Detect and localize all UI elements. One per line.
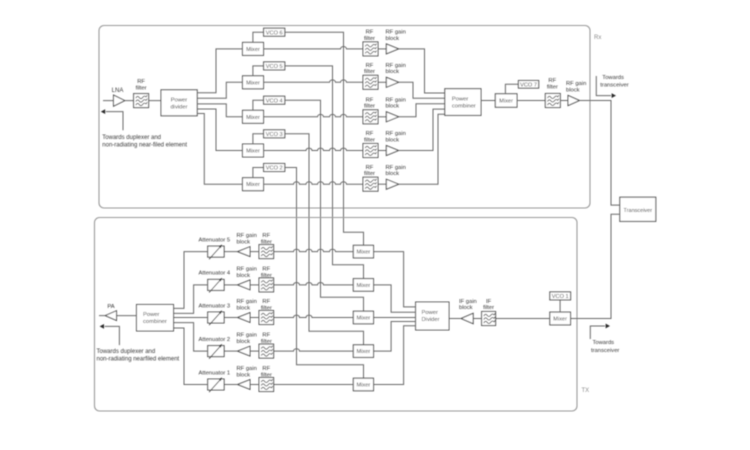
- mixer M8: [353, 245, 373, 258]
- svg-text:filter: filter: [364, 104, 375, 110]
- filter RX input RF filter: [134, 79, 149, 108]
- svg-text:RF: RF: [262, 299, 270, 305]
- svg-text:block: block: [237, 240, 251, 246]
- svg-text:Power: Power: [143, 312, 160, 318]
- svg-text:RF gain: RF gain: [237, 267, 257, 273]
- svg-text:filter: filter: [261, 273, 272, 279]
- filter RF F9: [259, 299, 274, 324]
- svg-text:RF gain: RF gain: [237, 233, 257, 239]
- wire attenuator A5 to gain G7: [224, 251, 237, 253]
- wire attenuator A4 to gain G8: [224, 284, 237, 286]
- svg-text:RF gain: RF gain: [237, 333, 257, 339]
- svg-text:Towards duplexer and: Towards duplexer and: [97, 349, 156, 355]
- mixer M4: [243, 144, 264, 157]
- svg-text:RF: RF: [366, 131, 374, 137]
- wire mixer M1 to VCO 6: [253, 32, 264, 42]
- oscillator VCO 1: [550, 292, 571, 300]
- wire divider out2 to mixer M2: [197, 82, 242, 98]
- svg-text:Mixer: Mixer: [357, 283, 371, 289]
- wire mixer M6 to filter F6: [517, 100, 545, 102]
- wire divider out3 to mixer M3: [197, 104, 242, 117]
- svg-text:Mixer: Mixer: [246, 182, 260, 188]
- svg-text:Power: Power: [171, 97, 188, 103]
- svg-text:filter: filter: [364, 36, 375, 42]
- oscillator VCO 4: [264, 96, 285, 104]
- wire mixer M5 to RF filter F5: [264, 182, 364, 184]
- svg-text:block: block: [386, 36, 400, 42]
- svg-text:block: block: [237, 372, 251, 378]
- wire gain G5 to combiner: [399, 114, 445, 184]
- mixer M7: [550, 312, 571, 325]
- wire attenuator A2 to gain G10: [224, 350, 237, 352]
- oscillator VCO 5: [264, 62, 285, 70]
- wire gain G11 to filter F11: [250, 384, 259, 386]
- svg-text:VCO 7: VCO 7: [520, 82, 537, 88]
- wire mixer M2 to RF filter F2: [264, 80, 364, 82]
- wire attenuator A1 to gain G11: [224, 384, 237, 386]
- wire filter F1 to gain G1: [378, 48, 386, 50]
- svg-text:non-radiating near-filed eleme: non-radiating near-filed element: [102, 142, 187, 148]
- wire filter F3 to gain G3: [378, 116, 386, 118]
- svg-text:Attenuator 2: Attenuator 2: [199, 337, 231, 343]
- arrow to duplexer (RX): [101, 109, 123, 130]
- TX section enclosure: [95, 218, 578, 412]
- wire gain G10 to filter F10: [250, 350, 259, 352]
- svg-text:RF gain: RF gain: [386, 131, 406, 137]
- wire filter F6 to gain G6: [560, 100, 568, 102]
- RX section enclosure: [99, 26, 590, 209]
- svg-text:Power: Power: [422, 310, 439, 316]
- wire VCO 5 bus to TX mixer: [285, 66, 364, 279]
- filter RF F8: [259, 267, 274, 292]
- wire mixer M10 to divider: [374, 317, 416, 319]
- power combiner RX: [445, 89, 481, 116]
- svg-text:Mixer: Mixer: [357, 250, 371, 256]
- svg-text:Towards duplexer and: Towards duplexer and: [102, 135, 161, 141]
- wire gain G1 to combiner: [399, 49, 445, 93]
- svg-text:RF gain: RF gain: [386, 97, 406, 103]
- svg-text:combiner: combiner: [452, 103, 476, 109]
- mixer M9: [353, 279, 373, 292]
- mixer M11: [353, 345, 373, 358]
- amplifier PA: [105, 304, 116, 321]
- filter RF F10: [259, 333, 274, 358]
- svg-text:filter: filter: [136, 85, 147, 91]
- oscillator VCO 7: [518, 81, 538, 89]
- wire LNA to RF filter: [125, 100, 134, 102]
- note towards duplexer (TX): [97, 349, 180, 362]
- svg-text:transceiver: transceiver: [591, 348, 619, 354]
- wire filter F8 to mixer M9: [274, 283, 354, 285]
- svg-text:Mixer: Mixer: [246, 47, 260, 53]
- svg-text:Mixer: Mixer: [357, 349, 371, 355]
- wire filter F10 to mixer M11: [274, 349, 354, 351]
- svg-text:block: block: [237, 273, 251, 279]
- note towards duplexer (RX): [102, 135, 187, 148]
- svg-text:transceiver: transceiver: [600, 83, 628, 89]
- svg-text:VCO 3: VCO 3: [266, 132, 283, 138]
- svg-text:non-radiating nearfiled elemen: non-radiating nearfiled element: [97, 357, 180, 363]
- filter RF F3: [363, 97, 378, 123]
- svg-text:block: block: [386, 104, 400, 110]
- svg-text:Towards: Towards: [593, 340, 615, 346]
- mixer M6: [495, 94, 517, 108]
- svg-text:filter: filter: [364, 137, 375, 143]
- wire mixer M3 to VCO 4: [253, 100, 264, 110]
- filter RF F11: [259, 366, 274, 391]
- wire filter F9 to mixer M10: [274, 315, 354, 317]
- wire transceiver to TX mixer M7: [571, 214, 620, 318]
- svg-text:filter: filter: [547, 85, 558, 91]
- attenuator A5: [199, 237, 231, 259]
- wire mixer M12 to divider: [374, 326, 416, 385]
- wire attenuator A3 to gain G9: [224, 317, 237, 319]
- svg-text:RF: RF: [366, 63, 374, 69]
- svg-text:block: block: [386, 137, 400, 143]
- wire VCO 4 bus to TX mixer: [285, 100, 364, 311]
- wire mixer M5 to VCO 2: [253, 168, 264, 178]
- svg-text:PA: PA: [107, 304, 114, 310]
- attenuator A1: [199, 370, 231, 392]
- wire VCO 3 bus to TX mixer: [285, 134, 364, 345]
- wire combiner to attenuator A1: [174, 328, 208, 385]
- wire mixer M4 to VCO 3: [253, 134, 264, 144]
- svg-text:Power: Power: [452, 96, 469, 102]
- amplifier RF gain block G3: [386, 97, 406, 121]
- svg-text:Attenuator 1: Attenuator 1: [199, 370, 231, 376]
- wire mixer M1 to RF filter F1: [264, 47, 364, 49]
- amplifier RF gain block G1: [386, 30, 406, 54]
- power divider RX: [161, 90, 197, 116]
- svg-text:RF gain: RF gain: [237, 299, 257, 305]
- wire mixer M9 to divider: [374, 285, 416, 312]
- svg-text:Divider: Divider: [422, 317, 440, 323]
- amplifier RF gain block G5: [386, 165, 406, 189]
- wire mixer M6 to VCO 7: [505, 84, 518, 94]
- oscillator VCO 3: [264, 130, 285, 138]
- attenuator A2: [199, 337, 231, 359]
- note towards transceiver (TX): [591, 340, 619, 354]
- svg-text:Attenuator 5: Attenuator 5: [199, 237, 231, 243]
- svg-text:RF: RF: [262, 233, 270, 239]
- mixer M1: [243, 42, 264, 55]
- svg-text:Attenuator 3: Attenuator 3: [199, 303, 231, 309]
- svg-text:VCO 6: VCO 6: [266, 30, 283, 36]
- arrow towards transceiver (TX): [590, 324, 610, 339]
- label TX: [582, 388, 590, 394]
- wire combiner to mixer M6: [481, 100, 495, 102]
- transceiver box: [620, 197, 656, 221]
- svg-text:RF gain: RF gain: [386, 30, 406, 36]
- wire RX antenna lead: [103, 100, 114, 102]
- svg-text:divider: divider: [170, 104, 187, 110]
- filter RF F1: [363, 30, 378, 56]
- wire divider out5 to mixer M5: [197, 114, 242, 185]
- amplifier RF gain block G8: [237, 267, 257, 290]
- svg-text:RF gain: RF gain: [237, 366, 257, 372]
- svg-text:Mixer: Mixer: [246, 115, 260, 121]
- svg-text:Mixer: Mixer: [246, 80, 260, 86]
- wire mixer M2 to VCO 5: [253, 66, 264, 76]
- wire filter F11 to mixer M12: [274, 384, 354, 386]
- svg-text:RF: RF: [366, 97, 374, 103]
- attenuator A3: [199, 303, 231, 325]
- svg-text:Mixer: Mixer: [357, 383, 371, 389]
- svg-text:VCO 1: VCO 1: [552, 294, 569, 300]
- wire combiner to attenuator A2: [174, 323, 208, 352]
- power divider TX: [416, 302, 449, 330]
- wire VCO 6 bus to TX mixer: [285, 32, 364, 245]
- svg-text:filter: filter: [261, 240, 272, 246]
- wire filter F4 to gain G4: [378, 150, 386, 152]
- svg-text:block: block: [237, 339, 251, 345]
- filter RF F4: [363, 131, 378, 157]
- label Rx: [594, 35, 601, 41]
- wire mixer M4 to RF filter F4: [264, 148, 364, 150]
- amplifier RF gain block G6: [566, 81, 586, 105]
- svg-text:VCO 2: VCO 2: [266, 166, 283, 172]
- amplifier RF gain block G10: [237, 333, 257, 356]
- svg-text:RF: RF: [262, 366, 270, 372]
- wire combiner to PA: [117, 315, 137, 317]
- svg-text:Mixer: Mixer: [499, 99, 513, 105]
- svg-text:filter: filter: [483, 305, 494, 311]
- attenuator A4: [199, 271, 231, 293]
- wire divider out1 to mixer M1: [197, 49, 242, 93]
- svg-text:block: block: [566, 88, 580, 94]
- wire gain G2 to combiner: [399, 82, 445, 98]
- svg-text:filter: filter: [364, 171, 375, 177]
- wire gain G7 to filter F7: [250, 251, 259, 253]
- svg-text:RF: RF: [366, 165, 374, 171]
- amplifier RF gain block G9: [237, 299, 257, 322]
- svg-text:RF gain: RF gain: [386, 63, 406, 69]
- wire gain G3 to combiner: [399, 104, 445, 117]
- wire mixer M11 to divider: [374, 322, 416, 352]
- svg-text:Attenuator 4: Attenuator 4: [199, 271, 231, 277]
- filter RF F5: [363, 165, 378, 191]
- amplifier RF gain block G7: [237, 233, 257, 256]
- svg-text:Transceiver: Transceiver: [624, 208, 653, 214]
- wire filter F2 to gain G2: [378, 81, 386, 83]
- wire combiner to attenuator A3: [174, 317, 208, 319]
- svg-text:RF: RF: [262, 267, 270, 273]
- amplifier RF gain block G4: [386, 131, 406, 155]
- svg-text:IF: IF: [486, 299, 492, 305]
- amplifier RF gain block G11: [237, 366, 257, 389]
- amplifier IF gain block G12: [459, 299, 477, 324]
- wire mixer M7 to VCO 1: [559, 300, 561, 312]
- mixer M5: [243, 178, 264, 191]
- wire gain G4 to combiner: [399, 109, 445, 150]
- wire gain G12 to IF filter: [473, 318, 481, 320]
- svg-text:RF: RF: [548, 78, 556, 84]
- svg-text:LNA: LNA: [112, 88, 124, 94]
- svg-text:filter: filter: [261, 372, 272, 378]
- svg-text:block: block: [459, 305, 473, 311]
- svg-text:RF gain: RF gain: [386, 165, 406, 171]
- svg-text:RF: RF: [137, 79, 145, 85]
- svg-text:RF: RF: [366, 30, 374, 36]
- power combiner TX: [137, 305, 174, 332]
- wire mixer M3 to RF filter F3: [264, 114, 364, 116]
- svg-text:block: block: [386, 69, 400, 75]
- svg-text:RF gain: RF gain: [566, 81, 586, 87]
- wire filter F5 to gain G5: [378, 183, 386, 185]
- filter RF F2: [363, 63, 378, 89]
- svg-text:Towards: Towards: [602, 75, 624, 81]
- svg-text:Mixer: Mixer: [553, 317, 567, 323]
- wire IF filter to mixer M7: [496, 318, 550, 320]
- svg-text:block: block: [386, 171, 400, 177]
- filter RF F6: [545, 78, 560, 107]
- svg-text:filter: filter: [261, 305, 272, 311]
- wire combiner to attenuator A4: [174, 285, 208, 314]
- wire filter F7 to mixer M8: [274, 249, 354, 251]
- oscillator VCO 2: [264, 164, 285, 172]
- arrow to duplexer (TX): [100, 324, 120, 345]
- wire combiner to attenuator A5: [174, 252, 208, 309]
- svg-text:combiner: combiner: [143, 319, 167, 325]
- svg-text:IF gain: IF gain: [459, 299, 477, 305]
- svg-text:Mixer: Mixer: [246, 149, 260, 155]
- wire divider out4 to mixer M4: [197, 109, 242, 151]
- wire PA antenna lead: [99, 315, 105, 317]
- amplifier LNA: [112, 88, 125, 106]
- svg-text:VCO 4: VCO 4: [266, 98, 283, 104]
- mixer M2: [243, 76, 264, 89]
- wire gain G9 to filter F9: [250, 317, 259, 319]
- svg-text:filter: filter: [364, 69, 375, 75]
- mixer M12: [353, 378, 373, 391]
- filter RF F7: [259, 233, 274, 258]
- wire divider to gain G12: [449, 318, 461, 320]
- svg-text:VCO 5: VCO 5: [266, 64, 283, 70]
- svg-text:filter: filter: [261, 339, 272, 345]
- mixer M3: [243, 110, 264, 123]
- svg-text:TX: TX: [582, 388, 590, 394]
- svg-text:Mixer: Mixer: [357, 316, 371, 322]
- filter IF: [482, 299, 496, 326]
- arrow towards transceiver (RX): [596, 76, 616, 98]
- wire mixer M8 to divider: [374, 252, 416, 307]
- svg-text:Rx: Rx: [594, 35, 601, 41]
- oscillator VCO 6: [264, 28, 285, 36]
- wire VCO 2 bus to TX mixer: [285, 168, 364, 379]
- wire RX output to transceiver: [580, 101, 620, 206]
- svg-text:RF: RF: [262, 333, 270, 339]
- svg-text:block: block: [237, 305, 251, 311]
- wire RF filter to power divider: [149, 100, 161, 102]
- wire gain G8 to filter F8: [250, 284, 259, 286]
- amplifier RF gain block G2: [386, 63, 406, 87]
- note towards transceiver (RX): [600, 75, 628, 89]
- mixer M10: [353, 311, 373, 324]
